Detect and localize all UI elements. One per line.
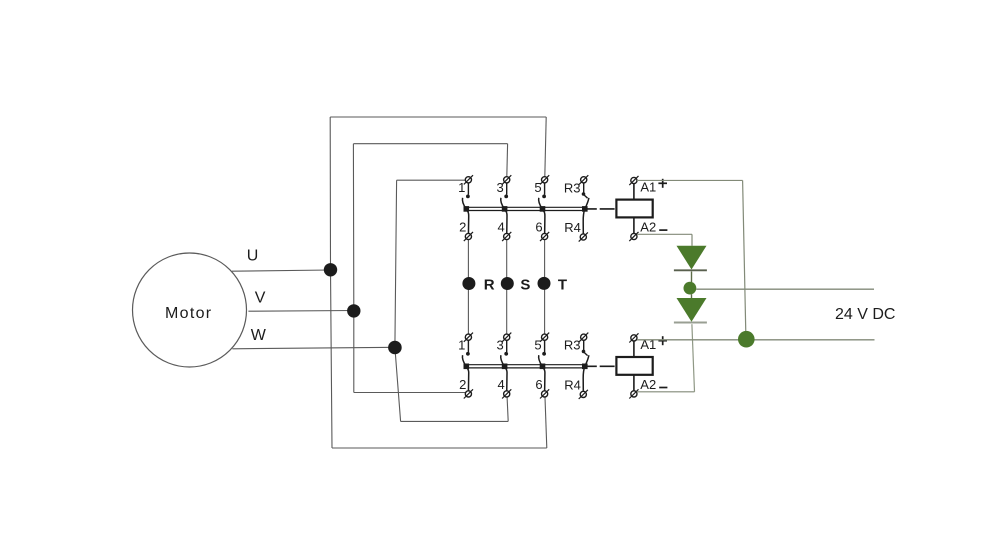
label T [558,277,567,294]
label V [255,290,266,307]
label K2 pin 4 [497,377,504,392]
wire W rise to K2 terminal 4 [507,397,508,421]
terminal K1 A2 [629,217,638,241]
node +24V junction [738,331,755,348]
svg-text:R4: R4 [564,220,581,235]
node R [462,277,475,290]
node W junction [388,341,402,355]
label K2 pin R3 [564,338,581,353]
polarity minus K2 [659,387,667,389]
svg-text:6: 6 [535,377,542,392]
wire U drop to contact 5 [545,117,546,177]
svg-text:A1: A1 [640,180,656,195]
svg-text:2: 2 [459,377,466,392]
mechanical link K2 [588,365,616,367]
label K2 pin 5 [534,337,541,352]
contactor K2 contact 5-6 [539,333,550,399]
svg-text:24 V DC: 24 V DC [835,306,895,323]
svg-text:A2: A2 [640,219,656,234]
svg-text:3: 3 [496,337,503,352]
label K1 A2 [640,219,656,234]
svg-text:R3: R3 [564,180,581,195]
label K2 pin 6 [535,377,542,392]
label S [520,277,530,294]
node V junction [347,304,360,317]
wire U rise to K2 terminal 6 [545,397,547,448]
wire V drop to contact 3 [506,144,509,177]
polarity plus K2 [658,336,667,345]
polarity plus K1 [658,179,667,188]
mechanical link K1 [588,208,616,210]
polarity minus K1 [659,229,667,231]
svg-text:R4: R4 [564,378,581,393]
wire W bus vertical [395,180,401,421]
label K1 pin 3 [496,180,503,195]
label K1 pin R4 [564,220,581,235]
wire 24V rail upper [696,288,874,290]
svg-text:U: U [247,248,259,265]
label K1 pin 4 [497,220,504,235]
svg-text:S: S [520,277,530,294]
svg-text:6: 6 [535,220,542,235]
wire V horizontal [353,143,507,145]
contactor K1 contact 5-6 [539,175,550,241]
wire T phase vertical [544,240,546,335]
svg-text:3: 3 [496,180,503,195]
label K2 pin 3 [496,337,503,352]
wire U top horizontal [330,116,546,118]
wire 24V rail lower [637,339,875,341]
wire V to K2 terminal 2 [354,392,466,394]
svg-text:4: 4 [497,220,504,235]
label K2 pin 1 [458,337,465,352]
wire V bus vertical [352,144,354,393]
contactor K1 aux contact R3-R4 [579,175,589,241]
svg-text:5: 5 [534,180,541,195]
contactor K2 aux contact R3-R4 [579,333,589,399]
contactor K2 contact 1-2 [462,333,473,399]
coil K1 [616,200,652,218]
node T [538,277,551,290]
label K1 pin 6 [535,220,542,235]
label W [251,327,267,344]
wire K1 A1 to +24V [637,179,743,181]
svg-text:1: 1 [458,180,465,195]
wire motor-U [232,270,331,271]
contactor K2 contact 3-4 [501,333,512,399]
label K2 pin 2 [459,377,466,392]
node U junction [324,263,337,276]
svg-text:2: 2 [459,220,466,235]
wire S phase vertical [506,240,508,335]
wire +24V right vertical [743,180,746,338]
svg-text:1: 1 [458,337,465,352]
coil K2 [616,357,652,375]
svg-text:4: 4 [497,377,504,392]
wire R phase vertical [467,240,469,335]
terminal K2 A1 [629,333,638,357]
label 24 V DC [835,306,895,323]
label K1 A1 [640,180,656,195]
motor M1 [133,253,247,367]
svg-text:V: V [255,290,266,307]
wire W horizontal to contact 1 [397,179,466,181]
label K2 A1 [640,337,656,352]
label K1 pin R3 [564,180,581,195]
wire motor-V [248,310,353,313]
svg-text:W: W [251,327,267,344]
node diode midpoint [684,282,697,295]
wire motor-W [232,347,395,349]
label R [484,277,495,294]
diode D2 [674,298,707,323]
terminal K1 A1 [629,176,638,200]
diode D1 [674,246,707,270]
wire U bus vertical [330,117,332,448]
label K2 pin R4 [564,378,581,393]
label K1 pin 2 [459,220,466,235]
contactor K1 contact 3-4 [501,175,512,241]
wire K1 A2 to diodes [637,234,692,246]
terminal K2 A2 [629,375,638,399]
linkage bar K2 [464,365,588,368]
wire W bottom horizontal [401,420,509,422]
label K1 pin 5 [534,180,541,195]
contactor K1 contact 1-2 [462,175,473,241]
svg-text:5: 5 [534,337,541,352]
label U [247,248,259,265]
wire D1 cathode to node [691,272,693,283]
label K1 pin 1 [458,180,465,195]
wire U bottom horizontal [332,447,547,449]
wire D2 cathode down [692,324,695,392]
linkage bar K1 [464,207,588,210]
node S [501,277,514,290]
svg-text:A2: A2 [640,377,656,392]
svg-text:R3: R3 [564,338,581,353]
label K2 A2 [640,377,656,392]
svg-text:R: R [484,277,495,294]
wire node to D2 [691,294,693,298]
wire K2 A2 horizontal [637,391,695,393]
svg-text:T: T [558,277,567,294]
svg-text:Motor: Motor [165,305,212,322]
